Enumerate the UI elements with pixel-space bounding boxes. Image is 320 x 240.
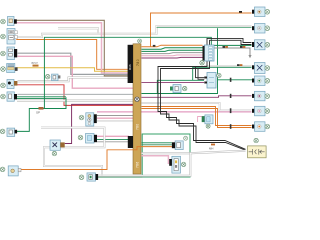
connector C8 (0, 166, 21, 176)
wire orange double bar to R8 (142, 107, 252, 128)
connector L8 bottom-left (50, 140, 65, 156)
black wire B: R3 to ground bundle (161, 40, 252, 150)
staircase bundle bar to U1: orange (142, 45, 203, 47)
wire green from B1 along bottom (97, 176, 143, 178)
connector R2 (252, 24, 270, 34)
connector C7 (0, 128, 17, 136)
svg-text:786: 786 (136, 161, 140, 168)
wire C4 yellow (16, 68, 128, 72)
wire C1 pink pair (17, 23, 129, 73)
connector Y2 mid (170, 85, 187, 93)
wire C2 orange to bar (16, 40, 128, 70)
wire C5 red (14, 85, 133, 106)
svg-text:SP: SP (36, 110, 40, 114)
staircase: purple (142, 56, 203, 59)
label tick MH on bundle (211, 144, 215, 146)
staircase: pink (142, 54, 203, 57)
staircase: green 2 (142, 50, 203, 51)
interconnect bar tan (133, 44, 141, 174)
wire orange branch to R1 (151, 13, 252, 47)
green net: U riser (41, 97, 66, 108)
wire green bar to R5 (142, 28, 253, 93)
green net: conn7 branch (17, 109, 45, 132)
splice SP on green net (39, 107, 44, 110)
connector C2 (1, 29, 18, 45)
label tick on R7 wire (230, 108, 232, 113)
orange ticks on jumper (223, 46, 226, 48)
wire M1 pink to bar (97, 117, 133, 119)
label tick on R6 wire (230, 94, 232, 98)
wire C1 brown (17, 20, 129, 76)
connector R4 (252, 63, 270, 74)
wire C3 grey (18, 53, 129, 74)
wire C8 orange to V0 (21, 147, 172, 170)
wire magenta bar to R7 area pink (97, 111, 252, 113)
green enclosure box around bottom-centre cluster (142, 134, 190, 177)
connector C6 (1, 92, 17, 101)
orange tick on R4 wire (237, 64, 240, 66)
connector C3 (1, 47, 18, 60)
wire C3 pink pair (18, 56, 134, 88)
label tick on orange wire (239, 11, 242, 13)
connector C5 (1, 80, 18, 89)
connector Y1 on yellow wire (46, 74, 61, 81)
wire green second line of R2 white/green pair (157, 27, 252, 29)
wire purple bar to R6 (142, 96, 252, 98)
interconnect bar black upper (128, 45, 133, 83)
wire M1 grey to bar (97, 115, 133, 117)
connector R3 (252, 40, 270, 50)
wire M1 white to bar (97, 120, 133, 122)
connector M2 (78, 134, 97, 144)
interconnect bar black lower (128, 136, 133, 148)
staircase: green (142, 48, 203, 49)
green net: C6 green branch pair (17, 96, 66, 98)
bar circle symbol middle (135, 97, 140, 102)
wire purple from L8 up to bar (65, 104, 133, 143)
connector R6 (252, 91, 270, 101)
wire pink bar to V1 (142, 156, 170, 163)
connector R7 (252, 106, 270, 116)
wire M2 green to bar (97, 139, 129, 141)
wire white corner stub (58, 28, 98, 33)
green net: main run to R3 (44, 37, 251, 108)
connector B1 bottom (79, 173, 98, 181)
connector R1 (252, 7, 270, 17)
svg-text:780: 780 (136, 123, 140, 130)
wire white from B1 to harness point (97, 151, 246, 176)
wire green branch to R4 (204, 65, 252, 67)
connector U2 multipin (204, 73, 221, 89)
wire white bar to harness bottom edge (142, 152, 191, 154)
connector V0 bottom-centre (172, 136, 188, 149)
connector C1 (1, 17, 17, 26)
wire purple bar to U2 (142, 81, 205, 83)
bar circle symbol top (138, 39, 142, 43)
wire C6 grey (18, 93, 134, 95)
ground component GND yellow box (248, 138, 267, 157)
svg-text:MH: MH (209, 146, 213, 150)
connector R5 (252, 76, 270, 86)
wire M2 grey to bar (97, 141, 129, 143)
label tick on R5 wire (230, 78, 232, 82)
svg-text:BP37: BP37 (32, 61, 39, 65)
label tick on R8 wire (230, 124, 232, 129)
label BP37 on yellow wire (32, 61, 39, 66)
connector U1 multipin (200, 45, 214, 65)
staircase: grey (142, 53, 203, 54)
wire dark pair branch to U2 (196, 67, 205, 80)
connector V1 vertical (169, 156, 186, 173)
connector R8 (252, 122, 270, 132)
wire green bar riser to U2 pin (157, 80, 204, 93)
wire C2 white to R2 (16, 26, 251, 37)
connector M1 (79, 113, 97, 126)
svg-text:R36: R36 (128, 64, 132, 70)
wire C5 white via riser (18, 78, 129, 82)
wire green pair bar to V0 (142, 142, 172, 144)
wire C6 white thick (17, 99, 133, 101)
label tick on staircase (153, 45, 156, 47)
wire white bar to R7 (142, 103, 252, 110)
svg-text:780: 780 (136, 59, 140, 66)
grey jumper from U1 with arrow (214, 48, 250, 55)
black wire A: R3 to ground bundle (158, 38, 252, 149)
wire white W loop around left cluster down to B1 (41, 128, 104, 176)
wire M2 pink to bar (97, 135, 129, 137)
connector C4 (1, 64, 18, 73)
connector O1 on orange run (198, 115, 213, 128)
